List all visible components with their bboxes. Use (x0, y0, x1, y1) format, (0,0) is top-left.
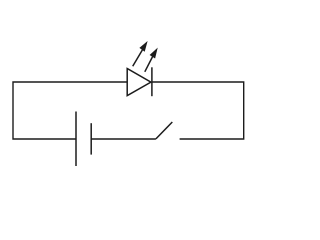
battery B1 short plate (90, 123, 92, 154)
battery B1 long plate (75, 112, 77, 167)
wire: battery positive plate to switch pivot (91, 138, 156, 140)
switch S1 blade (open) (156, 122, 172, 139)
LED D1 cathode bar (151, 67, 153, 96)
wire: LED cathode to right side and down to switch contact (152, 82, 244, 139)
LED D1 emission arrow 2 head (150, 48, 158, 59)
LED D1 emission arrow 1 shaft (133, 48, 144, 66)
wire: battery negative plate to left side and up to LED anode (13, 82, 127, 139)
LED D1 triangle (anode) (127, 69, 151, 96)
LED D1 emission arrow 2 shaft (145, 55, 154, 72)
LED D1 emission arrow 1 head (139, 41, 147, 52)
